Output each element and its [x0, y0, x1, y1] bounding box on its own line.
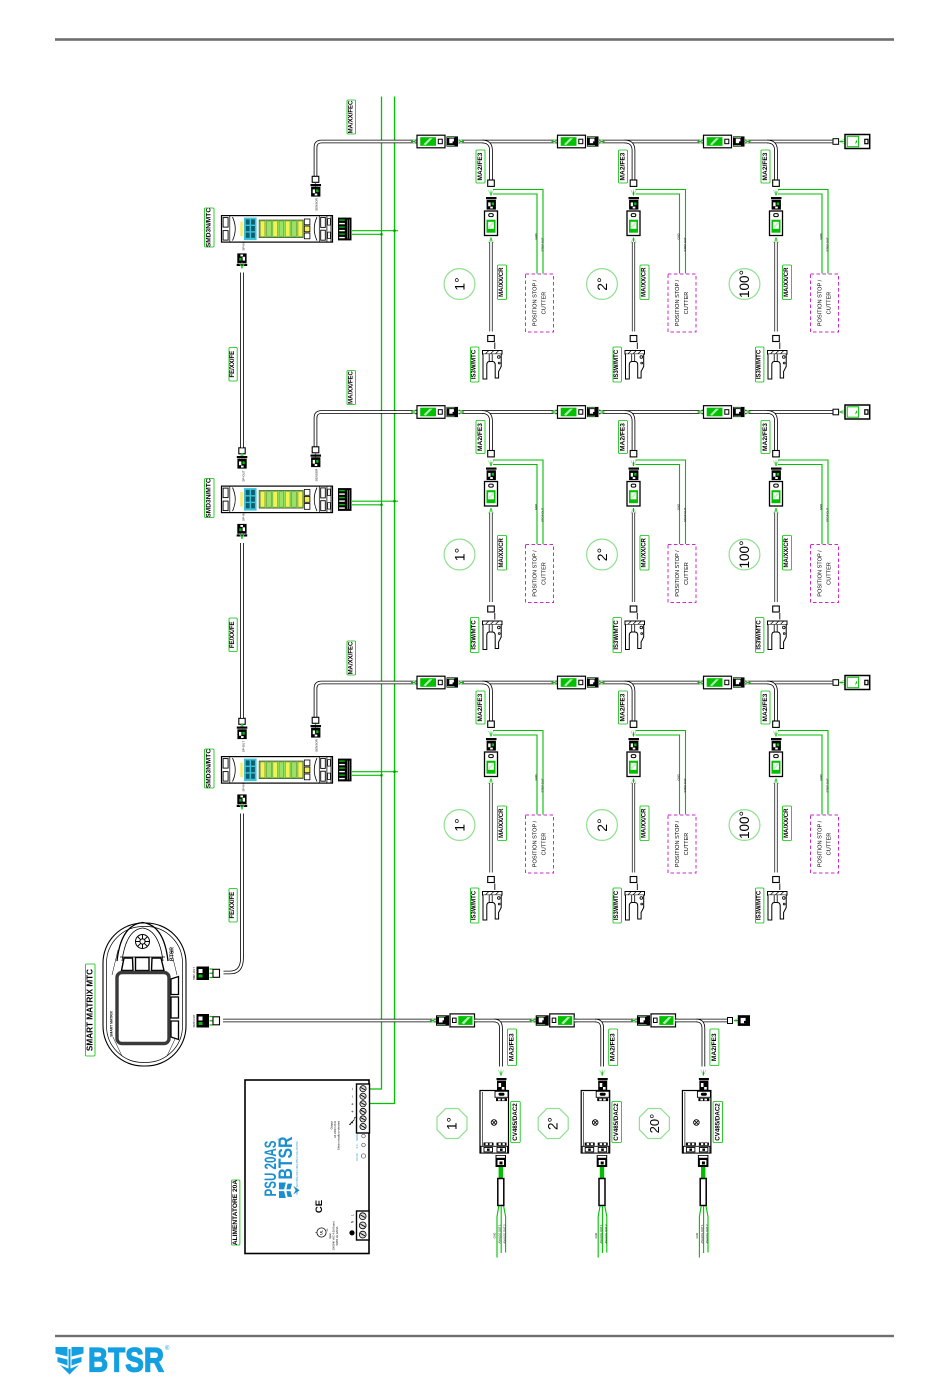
row 2: bus cable segment 4 — [745, 410, 833, 414]
SMD3N/MTC unit row 2: wire to bus B — [352, 500, 398, 502]
svg-text:MA/XX/CR: MA/XX/CR — [642, 537, 648, 567]
converter row: connector pair 3 — [631, 1018, 637, 1023]
svg-text:®: ® — [165, 1345, 170, 1352]
row 2.1: POSITION STOP / CUTTER box — [526, 545, 554, 603]
row 1: connector pair MA2/FE3 inline 1 — [411, 139, 417, 144]
row 1.1: label IS3W/MTC — [471, 347, 479, 382]
svg-text:DC OK: DC OK — [356, 1153, 359, 1161]
row 1.1: drop cable MA2/FE3 — [482, 142, 491, 181]
converter row: cable segment 4 — [676, 1019, 729, 1023]
row 1: bus cable segment 2 — [459, 140, 558, 144]
SMD3N row 1: SENSOR port plug — [312, 176, 319, 182]
svg-text:CUTTER: CUTTER — [684, 562, 690, 585]
row 3.2: sensor cable — [632, 783, 635, 873]
row 2.3: cable end ferrule — [773, 451, 780, 457]
svg-text:CUTTER: CUTTER — [542, 833, 548, 856]
row 3.2: sensor plug — [629, 738, 640, 751]
converter 3: output pigtail — [701, 1167, 705, 1179]
row 3: bus cable segment 3 — [599, 681, 704, 685]
svg-text:MA2/FE3: MA2/FE3 — [477, 693, 484, 721]
svg-text:STOP OUT: STOP OUT — [541, 778, 545, 792]
row 2: connector pair MA2/FE3 inline 1 — [411, 409, 417, 414]
converter 2: label MA2/FE3 — [609, 1029, 618, 1066]
svg-text:STOP OUT: STOP OUT — [541, 508, 545, 522]
SMD3N/MTC unit row 1: output pin block — [338, 218, 352, 241]
row 1: sensor feeder cable from SMD3N SENSOR port — [316, 142, 418, 177]
PSU 20AS: earth dot — [349, 1230, 354, 1235]
svg-text:SMART MATRIX MTC: SMART MATRIX MTC — [86, 969, 95, 1051]
svg-text:®: ® — [278, 1138, 282, 1141]
svg-text:20°: 20° — [647, 1114, 662, 1134]
junction row 3 bus A — [380, 774, 382, 776]
row 1.1: cable end ferrule — [488, 180, 495, 186]
row 2.1: position circle — [444, 539, 475, 570]
svg-text:GND: GND — [534, 774, 538, 780]
converter 2: drop cable — [595, 1021, 602, 1067]
svg-text:100°: 100° — [737, 270, 752, 298]
row 2.3: IS3W yarn fork sensor — [768, 621, 788, 650]
converter 2: output pigtail — [600, 1167, 604, 1179]
row 3: connector pair MA2/FE3 inline 1 — [411, 680, 417, 685]
row 2.2: MA3 sensor device — [627, 482, 640, 507]
row 2.1: cable end ferrule — [488, 451, 495, 457]
row 3.3: position circle — [729, 810, 760, 841]
row 3.1: stop/cutter signal wire STOP OUT — [493, 731, 543, 815]
SMD3N/MTC unit row 2: output pin block — [338, 488, 352, 511]
row 2.3: stop/cutter signal wire GND — [778, 465, 822, 545]
row 2: connector pair MA2/FE3 inline 3 — [698, 409, 704, 414]
cable FE/XX/FE row2-row3 — [240, 543, 244, 718]
svg-text:CV485/DAC2: CV485/DAC2 — [512, 1103, 519, 1141]
svg-text:CUTTER: CUTTER — [684, 292, 690, 315]
row 3: bus cable segment 4 — [745, 681, 833, 685]
converter row: connector pair 2 — [530, 1018, 536, 1023]
row 1.1: label MA/XX/CR — [498, 265, 507, 300]
svg-text:MA/XX/CR: MA/XX/CR — [784, 537, 790, 567]
row 1.2: label IS3W/MTC — [613, 347, 621, 382]
SMART MATRIX: screen — [117, 973, 169, 1044]
row 2: bus cable segment 2 — [459, 410, 558, 414]
row 2.3: sensor plug — [771, 468, 782, 481]
svg-text:MA/XX/CR: MA/XX/CR — [784, 267, 790, 297]
row 2.1: stop/cutter signal wire STOP OUT — [493, 460, 543, 544]
row 1.2: POSITION STOP / CUTTER box — [668, 274, 696, 332]
svg-text:STOP OUT: STOP OUT — [826, 778, 830, 792]
PSU 20AS: DC terminal block — [357, 1084, 370, 1133]
svg-text:IS3W/MTC: IS3W/MTC — [757, 890, 763, 920]
row 1.2: stop/cutter signal wire STOP OUT — [636, 190, 686, 274]
row 1.3: stop/cutter signal wire STOP OUT — [778, 190, 828, 274]
row 3.3: label IS3W/MTC — [756, 888, 764, 923]
svg-text:MA/XX/CR: MA/XX/CR — [499, 537, 505, 567]
converter 2: CV485/DAC2 device — [581, 1091, 610, 1154]
svg-text:BTSR: BTSR — [170, 947, 176, 961]
svg-text:2°: 2° — [594, 818, 610, 831]
row 1.1: sensor plug — [486, 197, 497, 210]
svg-text:SENSOR: SENSOR — [315, 197, 319, 211]
row 3.3: lower ferrule — [773, 877, 780, 883]
svg-text:100/240 VAC 4.5A Rated: 100/240 VAC 4.5A Rated — [332, 1221, 336, 1250]
row 3.3: cable end ferrule — [773, 721, 780, 727]
row 3.2: label IS3W/MTC — [613, 888, 621, 923]
svg-text:MA/XX/CR: MA/XX/CR — [642, 267, 648, 297]
row 3.1: label IS3W/MTC — [471, 888, 479, 923]
svg-text:GND: GND — [594, 1233, 598, 1239]
SMD3N/MTC unit row 2: label — [205, 478, 215, 517]
cable from SMP-OUT 2 to converter row — [223, 1019, 436, 1023]
row 3.2: IS3W yarn fork sensor — [625, 892, 645, 921]
row 3.3: MA3 sensor device — [770, 752, 783, 777]
row 2.3: sensor cable — [774, 513, 777, 603]
SMART MATRIX: fan wheel — [136, 935, 150, 949]
row 2.2: sensor plug — [629, 468, 640, 481]
svg-text:IS3W/MTC: IS3W/MTC — [614, 349, 620, 379]
row 2.1: label MA/XX/CR — [498, 536, 507, 571]
row 3.2: lower ferrule — [630, 877, 637, 883]
SMD3N row 2: SENSOR port plug — [312, 447, 319, 453]
row 1: connector pair MA2/FE3 inline 3 — [698, 139, 704, 144]
SMART MATRIX: side keys — [171, 977, 179, 1040]
row 3.2: label MA/XX/CR — [640, 806, 649, 841]
svg-text:SP-IN: SP-IN — [242, 783, 246, 791]
row 3.1: drop cable MA2/FE3 — [482, 683, 491, 722]
row 1.3: lower ferrule — [773, 336, 780, 342]
converter 1: position octagon — [437, 1109, 467, 1139]
row 3: connector pair MA2/FE3 inline 3 — [698, 680, 704, 685]
svg-text:ANALOG OUT 2: ANALOG OUT 2 — [503, 1224, 507, 1244]
row 3.2: MA3 sensor device — [627, 752, 640, 777]
svg-text:FE/XX/FE: FE/XX/FE — [230, 621, 236, 648]
svg-text:MA/XX/CR: MA/XX/CR — [642, 808, 648, 838]
SMD3N row 3: SENSOR port plug — [312, 717, 319, 723]
svg-text:FE/XX/FE: FE/XX/FE — [230, 351, 236, 378]
row 3.2: POSITION STOP / CUTTER box — [668, 815, 696, 873]
row 2.3: lower ferrule — [773, 606, 780, 612]
svg-text:CUTTER: CUTTER — [542, 562, 548, 585]
svg-text:IS3W/MTC: IS3W/MTC — [472, 349, 478, 379]
svg-text:L: L — [351, 1214, 355, 1216]
svg-text:POSITION STOP /: POSITION STOP / — [533, 279, 539, 326]
svg-text:SMD3N/MTC: SMD3N/MTC — [206, 208, 213, 247]
svg-text:2°: 2° — [594, 277, 610, 290]
svg-text:POSITION STOP /: POSITION STOP / — [533, 820, 539, 867]
junction row 3 bus B — [393, 771, 395, 773]
svg-text:2°: 2° — [546, 1117, 561, 1130]
svg-text:GND: GND — [677, 233, 681, 239]
svg-text:GND: GND — [493, 1233, 497, 1239]
row 3.3: stop/cutter signal wire STOP OUT — [778, 731, 828, 815]
converter 3: output connector — [698, 1155, 709, 1167]
row 3.1: lower ferrule — [488, 877, 495, 883]
row 3.2: cable label MA2/FE3 — [619, 691, 628, 724]
row 1.3: cable label MA2/FE3 — [761, 150, 770, 183]
SMD3N row 2: SP-OUT port plug (from upstream) — [239, 448, 245, 454]
row 2.2: POSITION STOP / CUTTER box — [668, 545, 696, 603]
svg-text:2°: 2° — [594, 548, 610, 561]
svg-text:CV485/DAC2: CV485/DAC2 — [714, 1103, 721, 1141]
row 2: end connector — [840, 409, 846, 414]
SMD3N/MTC unit row 2: wire to bus A — [352, 504, 382, 506]
svg-text:SMD3N/MTC: SMD3N/MTC — [206, 749, 213, 788]
row 2.2: cable label MA2/FE3 — [619, 421, 628, 454]
wire 0V bus line B — [370, 97, 395, 1104]
svg-text:CE: CE — [314, 1200, 325, 1213]
svg-text:MODE: MODE — [356, 1133, 359, 1141]
row 2: MA/XX/FEC feeder cable label — [347, 371, 356, 405]
converter row: connector pair 1 — [430, 1018, 436, 1023]
row 2.2: sensor cable — [632, 513, 635, 603]
SMART MATRIX: speaker dome — [117, 923, 168, 962]
row 3: MA/XX/FEC feeder cable label — [347, 641, 356, 675]
row 1.1: position circle — [444, 269, 475, 300]
row 1.2: lower ferrule — [630, 336, 637, 342]
row 2.3: label IS3W/MTC — [756, 618, 764, 653]
cable FE/XX/FE row1-row2 — [240, 273, 244, 448]
row 1: MA/XX/FEC feeder cable label — [347, 100, 356, 134]
bottom border rule — [55, 1335, 894, 1337]
converter 1: cable sleeve — [498, 1179, 504, 1206]
row 1.3: IS3W yarn fork sensor — [768, 351, 788, 380]
SMART MATRIX: SMP-OUT port 1 — [197, 967, 220, 981]
row 3.2: stop/cutter signal wire STOP OUT — [636, 731, 686, 815]
row 2.1: sensor plug — [486, 468, 497, 481]
row 1.2: stop/cutter signal wire GND — [636, 194, 680, 274]
converter 3: input plug — [699, 1078, 709, 1080]
row 1.3: label MA/XX/CR — [783, 265, 792, 300]
converter row: cable segment 3 — [574, 1019, 637, 1023]
row 1.2: MA3 sensor device — [627, 211, 640, 236]
row 2.3: MA3 sensor device — [770, 482, 783, 507]
row 1.3: cable end ferrule — [773, 180, 780, 186]
svg-text:SMP-OUT: SMP-OUT — [192, 967, 196, 980]
converter row: cable segment 2 — [475, 1019, 536, 1023]
svg-text:GND: GND — [534, 233, 538, 239]
row 2: sensor feeder cable from SMD3N SENSOR port — [316, 412, 418, 447]
row 3.1: sensor plug — [486, 738, 497, 751]
converter 3: analog output wires — [699, 1206, 708, 1258]
svg-text:MA2/FE3: MA2/FE3 — [711, 1033, 718, 1061]
svg-text:CV485/DAC2: CV485/DAC2 — [613, 1103, 620, 1141]
row 3.1: MA3 sensor device — [485, 752, 498, 777]
converter 1: output connector — [496, 1155, 507, 1167]
row 1: connector pair MA2/FE3 inline 2 — [552, 139, 558, 144]
junction row 2 bus A — [380, 504, 382, 506]
converter 1: label CV485/DAC2 — [511, 1102, 521, 1143]
SMD3N row 3: SP-OUT port plug (from upstream) — [239, 718, 245, 724]
converter 2: label CV485/DAC2 — [612, 1102, 622, 1143]
svg-text:SP-IN: SP-IN — [242, 513, 246, 521]
row 2.1: label IS3W/MTC — [471, 618, 479, 653]
svg-text:POSITION STOP /: POSITION STOP / — [675, 279, 681, 326]
SMD3N/MTC unit row 3: body — [222, 757, 333, 784]
row 2.1: lower ferrule — [488, 606, 495, 612]
PSU 20AS: AC terminal block — [357, 1211, 370, 1240]
junction row 2 bus B — [393, 500, 395, 502]
SMART MATRIX: buttons — [122, 958, 165, 971]
row 1.2: cable label MA2/FE3 — [619, 150, 628, 183]
svg-text:CUTTER: CUTTER — [684, 833, 690, 856]
svg-text:−: − — [350, 1095, 355, 1098]
row 3.3: stop/cutter signal wire GND — [778, 735, 822, 815]
row 3: bus cable segment 2 — [459, 681, 558, 685]
svg-text:STOP OUT: STOP OUT — [683, 237, 687, 251]
svg-text:ANALOG OUT 1: ANALOG OUT 1 — [700, 1224, 704, 1244]
svg-text:Input: Input — [328, 1233, 332, 1239]
row 1: end connector — [840, 139, 846, 144]
row 3: sensor feeder cable from SMD3N SENSOR port — [316, 683, 418, 718]
row 2.3: cable label MA2/FE3 — [761, 421, 770, 454]
svg-text:SENSOR: SENSOR — [315, 468, 319, 482]
row 1.3: MA3 sensor device — [770, 211, 783, 236]
svg-text:−: − — [350, 1087, 355, 1090]
svg-text:GND: GND — [819, 504, 823, 510]
svg-text:STOP OUT: STOP OUT — [683, 508, 687, 522]
row 3.3: sensor cable — [774, 783, 777, 873]
row 1.1: POSITION STOP / CUTTER box — [526, 274, 554, 332]
converter 1: input plug — [497, 1078, 507, 1080]
row 1.1: lower ferrule — [488, 336, 495, 342]
row 1.1: stop/cutter signal wire STOP OUT — [493, 190, 543, 274]
svg-text:MA2/FE3: MA2/FE3 — [620, 693, 627, 721]
PSU 20AS power supply: label ALIMENTATORE 20A — [232, 1180, 240, 1245]
row 2.2: label MA/XX/CR — [640, 536, 649, 571]
SMD3N/MTC unit row 1: label — [205, 208, 215, 247]
junction row 1 bus A — [380, 233, 382, 235]
converter 2: position octagon — [538, 1109, 568, 1139]
svg-text:ALIMENTATORE 20A: ALIMENTATORE 20A — [232, 1180, 239, 1245]
converter row: end ferrule — [728, 1018, 733, 1024]
svg-text:IS3W/MTC: IS3W/MTC — [472, 890, 478, 920]
row 1.3: label IS3W/MTC — [756, 347, 764, 382]
svg-text:GND: GND — [695, 1233, 699, 1239]
svg-text:IS3W/MTC: IS3W/MTC — [472, 620, 478, 650]
row 1.2: position circle — [587, 269, 618, 300]
converter 1: drop cable — [494, 1021, 501, 1067]
row 2.1: MA3 sensor device — [485, 482, 498, 507]
row 2.2: stop/cutter signal wire GND — [636, 465, 680, 545]
svg-text:MA2/FE3: MA2/FE3 — [477, 152, 484, 180]
row 3.2: stop/cutter signal wire GND — [636, 735, 680, 815]
converter 2: cable sleeve — [599, 1179, 605, 1206]
svg-text:POSITION STOP /: POSITION STOP / — [533, 550, 539, 597]
row 3.2: cable end ferrule — [630, 721, 637, 727]
SMD3N/MTC unit row 3: output pin block — [338, 759, 352, 782]
svg-text:R.C.: R.C. — [356, 1143, 359, 1148]
svg-text:SMART MATRIX: SMART MATRIX — [110, 1010, 114, 1036]
row 1.2: sensor cable — [632, 242, 635, 332]
PSU 20AS: enclosure — [245, 1080, 369, 1254]
row 1.1: sensor cable — [489, 242, 492, 332]
row 1.2: cable end ferrule — [630, 180, 637, 186]
svg-text:ANALOG OUT 1: ANALOG OUT 1 — [498, 1224, 502, 1244]
svg-text:GND: GND — [677, 774, 681, 780]
converter row: end plug — [738, 1015, 750, 1026]
row 1.3: sensor plug — [771, 197, 782, 210]
svg-text:MA/XX/FEC: MA/XX/FEC — [348, 100, 354, 133]
row 2: bus cable segment 3 — [599, 410, 704, 414]
svg-text:CUTTER: CUTTER — [542, 292, 548, 315]
svg-text:Electronically protected: Electronically protected — [337, 1121, 341, 1150]
svg-text:MA/XX/FEC: MA/XX/FEC — [348, 641, 354, 674]
SMART MATRIX: SMP-OUT port 2 — [197, 1014, 220, 1028]
row 2.3: drop cable MA2/FE3 — [767, 412, 776, 451]
row 2.3: POSITION STOP / CUTTER box — [811, 545, 839, 603]
svg-text:MA2/FE3: MA2/FE3 — [620, 152, 627, 180]
row 3.3: IS3W yarn fork sensor — [768, 892, 788, 921]
SMD3N/MTC unit row 3: wire to bus B — [352, 771, 398, 773]
converter 3: label MA2/FE3 — [710, 1029, 719, 1066]
svg-text:1°: 1° — [452, 548, 468, 561]
svg-text:100°: 100° — [737, 811, 752, 839]
converter 2: output connector — [597, 1155, 608, 1167]
converter 2: input plug — [598, 1078, 608, 1080]
svg-text:BTSR: BTSR — [276, 1136, 297, 1179]
PSU 20AS: switch symbol — [349, 1117, 356, 1125]
row 2.1: drop cable MA2/FE3 — [482, 412, 491, 451]
row 1.3: drop cable MA2/FE3 — [767, 142, 776, 181]
label FE/XX/FE 3 — [229, 889, 237, 923]
converter 3: position octagon — [639, 1109, 669, 1139]
row 2.1: cable label MA2/FE3 — [476, 421, 485, 454]
svg-text:POSITION STOP /: POSITION STOP / — [675, 820, 681, 867]
row 1.2: sensor plug — [629, 197, 640, 210]
converter 3: label CV485/DAC2 — [713, 1102, 723, 1143]
row 3.1: label MA/XX/CR — [498, 806, 507, 841]
row 1: bus cable segment 4 — [745, 140, 833, 144]
svg-text:CUTTER: CUTTER — [827, 833, 833, 856]
converter 3: cable sleeve — [700, 1179, 706, 1206]
SMD3N/MTC unit row 1: wire to bus B — [352, 230, 398, 232]
converter 1: analog output wires — [497, 1206, 506, 1258]
svg-text:MA2/FE3: MA2/FE3 — [762, 693, 769, 721]
converter 3: CV485/DAC2 device — [682, 1091, 711, 1154]
row 2.3: stop/cutter signal wire STOP OUT — [778, 460, 828, 544]
converter 1: CV485/DAC2 device — [480, 1091, 509, 1154]
svg-text:SP-OUT: SP-OUT — [242, 741, 246, 753]
row 2: connector pair MA2/FE3 inline 2 — [552, 409, 558, 414]
row 1.2: drop cable MA2/FE3 — [625, 142, 634, 181]
converter row: end spray — [734, 1018, 740, 1023]
row 2.2: label IS3W/MTC — [613, 618, 621, 653]
row 3.1: position circle — [444, 810, 475, 841]
svg-text:GND: GND — [534, 504, 538, 510]
svg-text:MA2/FE3: MA2/FE3 — [477, 423, 484, 451]
row 2.2: IS3W yarn fork sensor — [625, 621, 645, 650]
svg-text:BTSR: BTSR — [88, 1342, 164, 1380]
wire 24V bus line A — [370, 97, 382, 1090]
svg-text:MA/XX/CR: MA/XX/CR — [499, 267, 505, 297]
svg-text:100°: 100° — [737, 541, 752, 569]
svg-text:UL: UL — [320, 1230, 324, 1235]
SMD3N/MTC unit row 1: body — [222, 216, 333, 243]
svg-text:POSITION STOP /: POSITION STOP / — [818, 279, 824, 326]
svg-text:+: + — [350, 1102, 355, 1105]
svg-text:IS3W/MTC: IS3W/MTC — [757, 620, 763, 650]
SMD3N/MTC unit row 3: label — [205, 749, 215, 788]
cable FE/XX/FE row3-smart matrix — [224, 814, 243, 973]
row 2.2: cable end ferrule — [630, 451, 637, 457]
row 3.1: IS3W yarn fork sensor — [483, 892, 503, 921]
row 2.2: position circle — [587, 539, 618, 570]
svg-text:MA/XX/FEC: MA/XX/FEC — [348, 371, 354, 404]
svg-text:POSITION STOP /: POSITION STOP / — [818, 550, 824, 597]
row 3.2: drop cable MA2/FE3 — [625, 683, 634, 722]
svg-text:SP-IN: SP-IN — [242, 242, 246, 250]
row 1.3: stop/cutter signal wire GND — [778, 194, 822, 274]
svg-text:FE/XX/FE: FE/XX/FE — [230, 892, 236, 919]
svg-text:+: + — [350, 1110, 355, 1113]
row 1.3: sensor cable — [774, 242, 777, 332]
